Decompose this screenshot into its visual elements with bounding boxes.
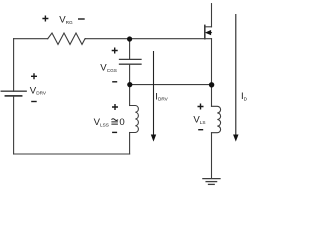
label - (VCGS) — [112, 81, 117, 83]
label approx-equals (VLSS) — [111, 119, 118, 124]
mosfet Q1 — [205, 25, 212, 38]
inductor LS — [212, 106, 221, 132]
label + (VLS) — [198, 104, 204, 110]
wire LSS top lead — [129, 85, 131, 106]
wire drain — [211, 4, 213, 27]
battery VDRV — [1, 91, 26, 96]
label - (VLSS) — [112, 131, 117, 133]
wire mid horizontal — [130, 84, 212, 86]
wire bottom rail — [14, 153, 130, 155]
resistor RG — [48, 33, 86, 44]
arrow IDRV — [151, 51, 156, 142]
arrow ID — [233, 14, 238, 142]
ground — [203, 179, 220, 185]
wire gate — [130, 38, 205, 40]
wire cap top lead — [129, 39, 131, 60]
wire left rail upper — [13, 39, 15, 91]
node source junction — [209, 82, 214, 87]
node gate-top junction — [127, 36, 132, 41]
wire top rail right — [86, 38, 130, 40]
label - (VRG) — [78, 18, 85, 20]
wire LS bottom lead — [211, 133, 213, 179]
label + (VLSS) — [112, 104, 118, 110]
label - (VDRV) — [31, 101, 37, 103]
label - (VLS) — [198, 129, 203, 131]
wire LSS bottom lead — [129, 133, 131, 155]
wire left rail lower — [13, 96, 15, 154]
svg-text:0: 0 — [119, 117, 124, 128]
label + (VCGS) — [112, 48, 118, 54]
node cap bottom junction — [127, 82, 132, 87]
wire top rail left — [14, 38, 48, 40]
wire cap bottom lead — [129, 64, 131, 84]
label + (VRG) — [42, 16, 48, 22]
wire source — [211, 39, 213, 107]
capacitor CGS — [120, 59, 142, 64]
inductor LSS — [130, 106, 139, 133]
label + (VDRV) — [31, 73, 37, 79]
